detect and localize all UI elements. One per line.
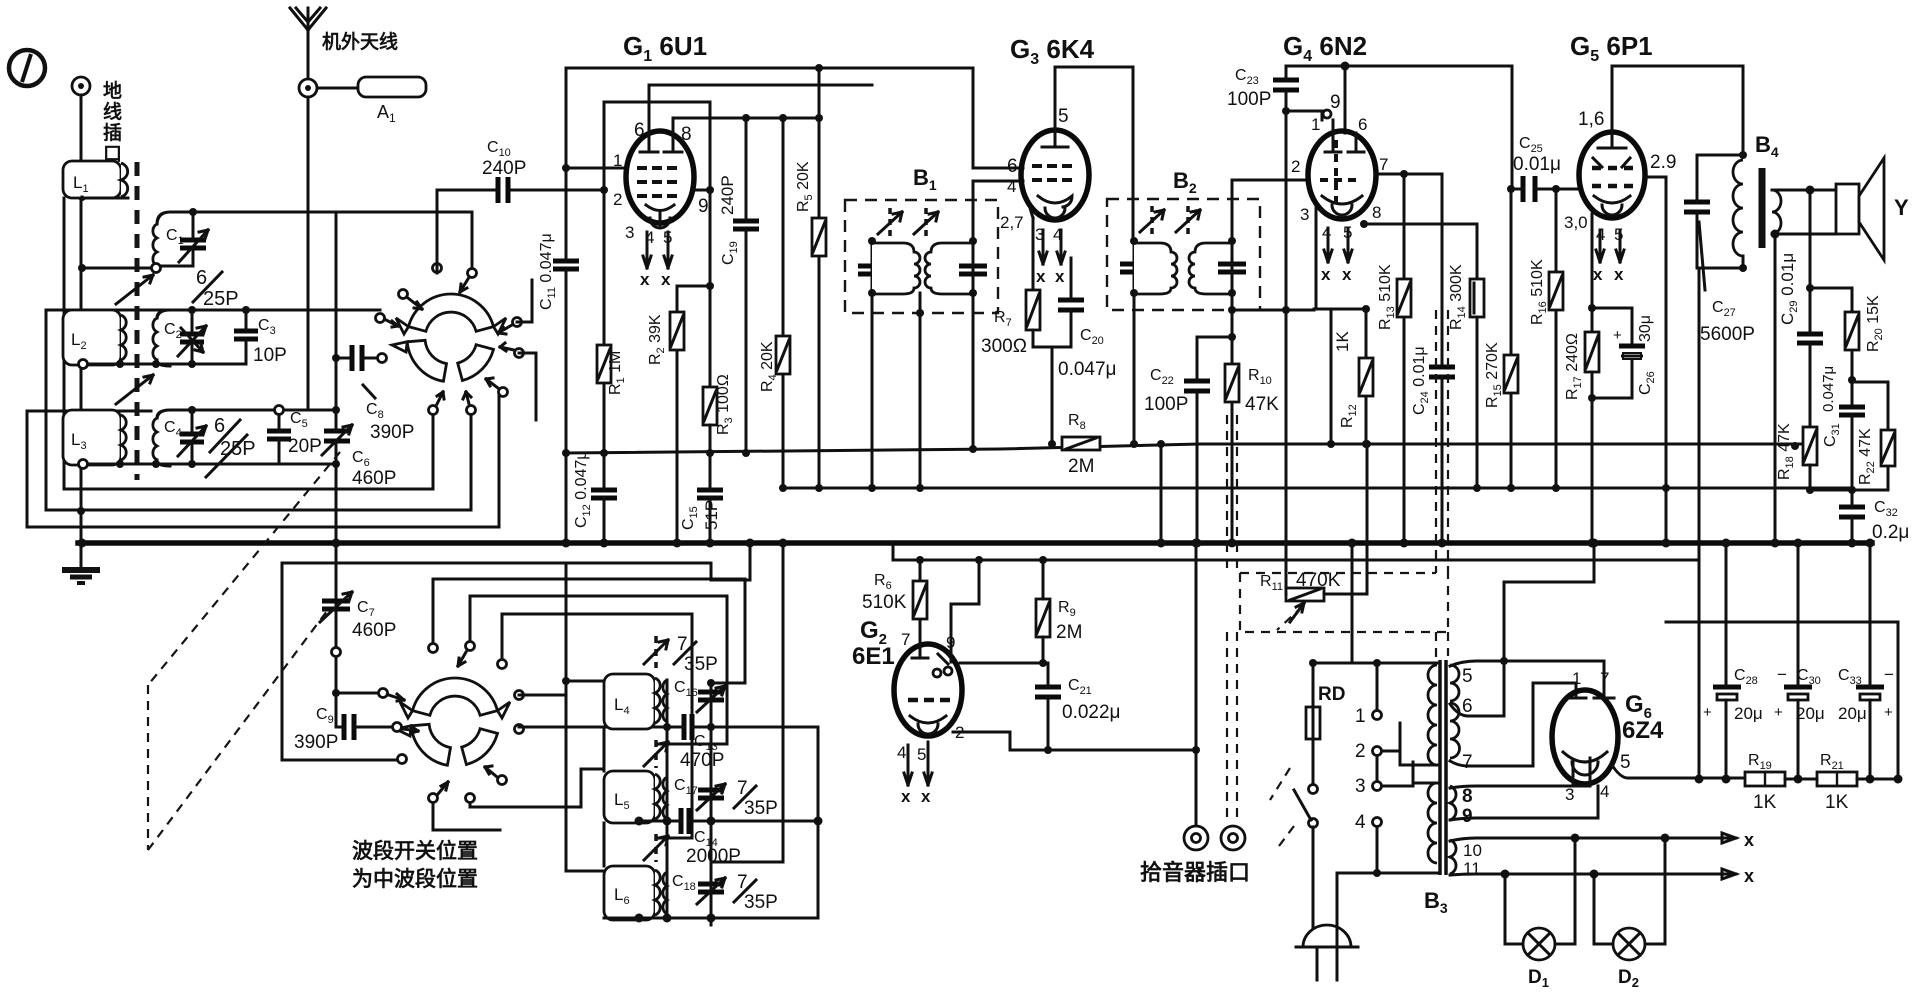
tube G6 filament — [1563, 752, 1607, 762]
capacitor C11 0.047u — [538, 68, 579, 543]
svg-text:机外天线: 机外天线 — [322, 30, 398, 53]
wire tap7 to plate1 — [1450, 683, 1576, 766]
wire G6 cathode out pin5 — [1612, 765, 1745, 778]
svg-text:x: x — [661, 270, 671, 289]
wire pin9 loop over tube y102 — [604, 102, 710, 190]
capacitor C30 20u — [1774, 543, 1825, 779]
wire G2 grid to R9/C21 — [960, 599, 1043, 663]
svg-text:R11: R11 — [1260, 573, 1283, 593]
resistor R16 510K — [1529, 189, 1563, 488]
tube G4 cathode — [1322, 196, 1362, 204]
antenna mast — [290, 8, 326, 97]
wire L-block left stubs — [566, 563, 604, 871]
svg-text:C8: C8 — [366, 401, 384, 421]
tube G6 plates — [1566, 697, 1614, 700]
svg-text:4: 4 — [1007, 177, 1016, 196]
transformer B2 box — [1107, 199, 1260, 310]
svg-text:R6: R6 — [874, 572, 892, 592]
resistor R3 100ohm — [703, 374, 735, 435]
svg-text:1: 1 — [613, 151, 622, 170]
svg-text:4: 4 — [1600, 782, 1609, 801]
svg-text:3: 3 — [1300, 205, 1309, 224]
svg-text:C25: C25 — [1519, 135, 1543, 155]
capacitor C2 trimmer — [180, 334, 204, 342]
wire antenna down to C6 — [308, 97, 336, 410]
tube G3 grids — [1032, 166, 1072, 180]
svg-text:C16: C16 — [674, 679, 698, 699]
wire G5 screen stub down — [1645, 177, 1666, 543]
capacitor C4 trimmer — [180, 434, 204, 442]
svg-text:R8: R8 — [1068, 412, 1086, 432]
wire speaker top — [1790, 189, 1836, 192]
svg-text:G1 6U1: G1 6U1 — [623, 31, 707, 65]
svg-text:C22: C22 — [1150, 367, 1174, 387]
svg-text:5600P: 5600P — [1700, 324, 1755, 345]
resistor R14 300K — [1448, 264, 1484, 488]
svg-text:C3: C3 — [258, 317, 276, 337]
svg-text:C15: C15 — [680, 506, 700, 530]
svg-text:D2: D2 — [1618, 967, 1639, 990]
tube G1 envelope — [626, 131, 694, 223]
node dots L-block — [635, 817, 644, 826]
svg-text:R5 20K: R5 20K — [795, 161, 815, 212]
node circled-1 mark — [9, 50, 45, 86]
tube G5 cathode — [1594, 196, 1630, 203]
wire screen line end to C32 — [1852, 488, 1855, 490]
dashed gang link to C6/C7 — [148, 452, 340, 850]
wire B2 left bottom down — [1133, 293, 1136, 444]
svg-text:300Ω: 300Ω — [981, 336, 1027, 357]
svg-text:C31: C31 — [1822, 423, 1842, 447]
inductor L6 unit — [604, 866, 667, 920]
svg-text:C17: C17 — [674, 777, 698, 797]
trimmer arrow gang lower — [116, 375, 153, 404]
svg-text:x: x — [1321, 265, 1331, 284]
svg-text:x: x — [1342, 265, 1352, 284]
resistor R8 2M — [1062, 412, 1100, 477]
dashed shielded pair to jacks — [1227, 415, 1237, 822]
svg-text:8: 8 — [681, 124, 692, 145]
svg-text:C18: C18 — [672, 873, 696, 893]
svg-text:A1: A1 — [377, 102, 396, 125]
svg-text:−: − — [1777, 665, 1787, 684]
svg-text:B3: B3 — [1424, 888, 1448, 916]
svg-text:+: + — [1884, 704, 1893, 721]
svg-text:C4: C4 — [164, 419, 182, 439]
wire osc gang line C6 down to bus and C7 — [335, 212, 338, 727]
svg-text:1: 1 — [1355, 706, 1366, 727]
tube G3 plate — [1042, 67, 1068, 147]
svg-text:470P: 470P — [680, 750, 724, 771]
svg-text:6: 6 — [1358, 115, 1367, 134]
svg-text:0.01μ: 0.01μ — [1513, 154, 1561, 175]
wire S2 bottom contacts — [433, 769, 604, 830]
tube G1 plates — [640, 85, 872, 152]
coil C1 — [153, 224, 157, 266]
wire left nest y527 L3 wrap — [27, 390, 499, 527]
svg-text:R18 47K: R18 47K — [1776, 423, 1796, 480]
svg-text:C11 0.047μ: C11 0.047μ — [538, 233, 558, 310]
svg-text:8: 8 — [1462, 786, 1473, 807]
svg-text:R10: R10 — [1248, 367, 1272, 387]
trimmer above L5 — [644, 740, 668, 768]
svg-text:R2 39K: R2 39K — [647, 314, 667, 365]
wire L3 bottom line — [86, 463, 336, 466]
svg-text:B2: B2 — [1173, 168, 1197, 196]
wire C1 top line — [82, 197, 336, 224]
svg-text:5: 5 — [1058, 106, 1069, 127]
tube G3 filament arrows — [1039, 230, 1065, 264]
wire C1 bottom — [157, 265, 193, 268]
svg-text:35P: 35P — [744, 892, 778, 913]
svg-text:460P: 460P — [352, 620, 396, 641]
svg-text:拾音器插口: 拾音器插口 — [1140, 860, 1250, 885]
dashed box around R11 — [1240, 573, 1448, 632]
capacitor C7 460P variable — [320, 592, 396, 641]
dashed shielded pair upper right — [1436, 310, 1448, 660]
lamp D2 — [1594, 838, 1665, 990]
svg-text:D1: D1 — [1528, 967, 1549, 990]
wire speaker bottom — [1775, 233, 1836, 236]
capacitor B1 right — [959, 266, 987, 274]
switch S2 contacts — [332, 642, 524, 803]
capacitor C21 0.022u — [1035, 663, 1121, 750]
tube G6 envelope — [1552, 690, 1618, 784]
svg-text:R9: R9 — [1058, 599, 1076, 619]
svg-text:25P: 25P — [203, 288, 239, 310]
svg-text:240P: 240P — [718, 175, 737, 215]
svg-text:R14 300K: R14 300K — [1448, 264, 1468, 330]
svg-text:x: x — [921, 787, 931, 806]
svg-text:5: 5 — [1620, 752, 1631, 773]
tube G2 internals — [912, 640, 951, 664]
svg-text:8: 8 — [1372, 203, 1381, 222]
svg-text:2: 2 — [1291, 157, 1300, 176]
wire pin7 line y174 — [1375, 174, 1442, 367]
capacitor C32 0.2u — [1839, 490, 1909, 543]
capacitor C9 390P — [294, 706, 392, 753]
tube G1 grids — [637, 168, 677, 196]
wire jack line y750 — [1010, 543, 1196, 829]
capacitor C12 0.047u — [573, 450, 617, 543]
svg-text:7: 7 — [1462, 752, 1473, 773]
coil B2 primary — [1134, 243, 1177, 294]
capacitor C3 10P — [234, 306, 287, 366]
tube G1 filament arrows — [643, 232, 672, 268]
tube G5 envelope — [1579, 132, 1645, 218]
svg-text:20μ: 20μ — [1838, 704, 1867, 723]
tube G3 envelope — [1021, 130, 1089, 220]
wire jack down to ground — [80, 95, 83, 570]
wire B1 right top to G3 grid — [973, 181, 1023, 241]
svg-text:460P: 460P — [352, 468, 396, 489]
switch S1 rotor — [392, 294, 506, 381]
svg-text:B1: B1 — [913, 165, 937, 193]
wire B+ filter line — [1785, 778, 1898, 781]
wire B1 bottom tap — [919, 293, 922, 488]
wire G2 pin9 riser — [951, 560, 979, 640]
coil C1 tank — [78, 197, 336, 273]
svg-text:390P: 390P — [294, 732, 338, 753]
wire C23 vertical — [1285, 66, 1288, 310]
coil B1 primary — [872, 243, 920, 294]
wire primary taps — [1382, 723, 1413, 786]
svg-text:C21: C21 — [1068, 677, 1092, 697]
svg-text:C28: C28 — [1734, 667, 1758, 687]
wire C10 left leg to contact — [437, 190, 494, 273]
capacitor C17 trimmer — [674, 777, 778, 819]
resistor R15 270K — [1484, 189, 1518, 488]
wire left nest y511 L2 wrap — [46, 310, 471, 510]
svg-text:510K: 510K — [862, 592, 907, 613]
svg-text:100P: 100P — [1144, 394, 1188, 415]
svg-text:0.2μ: 0.2μ — [1872, 522, 1909, 543]
tube G2 envelope — [894, 644, 962, 736]
resistor R9 2M — [1036, 560, 1082, 663]
svg-text:R16 510K: R16 510K — [1529, 259, 1549, 325]
wire B2 bottom detector node — [1232, 293, 1314, 593]
wire cathode detector extension — [1314, 309, 1366, 444]
svg-text:6: 6 — [214, 415, 225, 437]
coil C4 tank — [153, 406, 336, 468]
svg-text:390P: 390P — [370, 422, 414, 443]
svg-text:7: 7 — [1379, 155, 1388, 174]
wire G5 plate rail to B4 — [1612, 66, 1743, 155]
svg-text:1: 1 — [1311, 115, 1320, 134]
capacitor C24 0.01u — [1411, 346, 1455, 543]
trimmer above L4 — [644, 634, 718, 675]
svg-text:51P: 51P — [702, 500, 721, 530]
wire pin9 stub — [1286, 111, 1322, 120]
wire G5 grid line — [1556, 188, 1582, 191]
svg-text:6Z4: 6Z4 — [1622, 717, 1664, 744]
resistor R20 15K — [1845, 295, 1885, 352]
svg-text:x: x — [1036, 267, 1046, 286]
svg-text:C19: C19 — [720, 241, 740, 265]
wire L1 bottom node — [82, 197, 128, 200]
tube G3 cathode — [1038, 196, 1072, 207]
wire pin8 line y224 — [1364, 224, 1477, 279]
svg-text:C6: C6 — [352, 449, 370, 469]
svg-text:4: 4 — [1355, 812, 1366, 833]
svg-text:x: x — [1744, 830, 1754, 850]
wire C14 line extension — [711, 820, 818, 823]
tube G4 envelope — [1308, 131, 1376, 219]
svg-text:+: + — [1613, 327, 1622, 344]
svg-text:1K: 1K — [1333, 331, 1352, 352]
svg-text:G5 6P1: G5 6P1 — [1570, 31, 1653, 65]
wire left nest y490 L1 wrap — [64, 198, 433, 489]
wire pin8 top line y118 — [673, 117, 819, 120]
svg-text:0.047μ: 0.047μ — [1058, 359, 1117, 380]
svg-text:C32: C32 — [1874, 499, 1898, 519]
capacitor C22 100P — [1144, 337, 1232, 543]
wire right contacts to osc — [517, 280, 536, 420]
svg-text:20μ: 20μ — [1796, 704, 1825, 723]
svg-text:9: 9 — [698, 196, 709, 217]
svg-text:R12: R12 — [1339, 404, 1359, 428]
svg-text:C5: C5 — [290, 410, 308, 430]
wire S2 upper contacts nest wraps — [433, 579, 745, 683]
svg-text:插: 插 — [103, 122, 122, 144]
wire 8-9 loop to pins 3,4 — [1450, 758, 1598, 820]
resistor R5 20K — [795, 68, 826, 488]
svg-text:100P: 100P — [1227, 89, 1271, 110]
capacitor C33 20u — [1838, 543, 1894, 779]
pickup jacks — [1184, 826, 1245, 850]
wire B2 right top to 6N2 grid — [1232, 180, 1309, 241]
capacitor C28 20u — [1703, 543, 1763, 779]
tube G5 grids — [1592, 168, 1633, 186]
wire switch to plug left — [1312, 827, 1315, 947]
coil B1 secondary — [925, 243, 973, 294]
capacitor C13 470P — [667, 714, 724, 771]
capacitor C20 0.047u — [1058, 258, 1117, 380]
svg-text:2000P: 2000P — [686, 846, 741, 867]
wire lower-left loop — [282, 563, 398, 760]
speaker Y — [1836, 158, 1909, 260]
svg-text:20μ: 20μ — [1734, 704, 1763, 723]
tube G1 cathode — [646, 205, 674, 226]
wire G3 plate rail to B2 — [1055, 67, 1133, 241]
svg-text:线: 线 — [103, 100, 122, 123]
svg-text:3: 3 — [625, 223, 634, 242]
wiper R11 — [1290, 603, 1304, 622]
svg-text:6: 6 — [1007, 156, 1018, 177]
svg-text:R21: R21 — [1820, 752, 1844, 772]
transformer B3 primary contacts — [1376, 663, 1379, 873]
svg-text:R17 240Ω: R17 240Ω — [1564, 333, 1584, 400]
tube G4 filament arrows — [1324, 228, 1352, 262]
svg-text:R3 100Ω: R3 100Ω — [715, 374, 735, 435]
svg-text:0.022μ: 0.022μ — [1062, 702, 1121, 723]
svg-text:R7: R7 — [994, 309, 1012, 329]
dashed gang link vertical — [135, 162, 140, 480]
transformer B3 secondary 8-9 — [1450, 786, 1456, 820]
wire contact branch — [336, 692, 378, 695]
wire B4 bottom feed down — [1697, 256, 1743, 779]
svg-text:7: 7 — [901, 630, 910, 649]
resistor R21 1K — [1817, 752, 1857, 813]
wire down from R8 node — [1160, 444, 1163, 543]
wire top feed from bus — [1313, 543, 1437, 663]
capacitor C18 trimmer — [672, 872, 778, 913]
resistor R7 300ohm — [981, 290, 1071, 444]
wire 6N2 plate rail — [1286, 66, 1512, 189]
svg-text:x: x — [1614, 265, 1624, 284]
transformer B3 secondary 5-6 — [1450, 665, 1459, 701]
svg-text:RD: RD — [1318, 684, 1345, 705]
svg-text:C10: C10 — [487, 139, 511, 159]
lamp D1 — [1505, 838, 1575, 990]
svg-text:地: 地 — [103, 79, 122, 102]
resistor R2 39K — [647, 286, 710, 543]
capacitor C10 240P — [437, 139, 604, 203]
svg-text:C1: C1 — [166, 227, 184, 247]
svg-text:C12 0.047μ: C12 0.047μ — [573, 450, 593, 528]
svg-text:C33: C33 — [1838, 667, 1862, 687]
svg-text:R19: R19 — [1748, 752, 1772, 772]
resistor R10 47K — [1225, 293, 1279, 543]
capacitor C6 variable 460P — [322, 410, 396, 489]
wire tap6 stub — [1450, 704, 1504, 716]
wire right low line y622 — [1666, 622, 1898, 779]
wire pin3 cathode to detector line — [1314, 208, 1316, 309]
wire B1 right bottom down — [972, 293, 975, 449]
svg-text:25P: 25P — [220, 438, 256, 460]
component A1 — [317, 77, 426, 125]
resistor R1 1M — [597, 190, 627, 453]
svg-text:为中波段位置: 为中波段位置 — [352, 867, 478, 891]
tube G4 grids — [1320, 140, 1357, 210]
wire R11 terminals — [1286, 444, 1367, 594]
wire L2 bottom line — [86, 363, 246, 366]
capacitor C8 — [332, 345, 387, 398]
capacitor C27 5600P — [1684, 155, 1755, 345]
wire R20 branch — [1810, 288, 1852, 407]
svg-text:7: 7 — [1600, 669, 1609, 688]
capacitor C19 240P — [718, 118, 759, 453]
trimmer arrows B1 — [890, 208, 926, 238]
core B4 — [1759, 168, 1766, 248]
svg-text:3: 3 — [1565, 785, 1574, 804]
svg-text:240P: 240P — [482, 158, 526, 179]
svg-text:C24 0.01μ: C24 0.01μ — [1411, 346, 1431, 415]
svg-text:x: x — [1593, 265, 1603, 284]
svg-text:x: x — [640, 270, 650, 289]
svg-text:35P: 35P — [684, 654, 718, 675]
svg-text:x: x — [901, 787, 911, 806]
inductor L2 — [63, 310, 126, 365]
svg-text:2,7: 2,7 — [1000, 213, 1024, 232]
wire osc grid line to contact — [336, 212, 472, 268]
svg-text:+: + — [1703, 704, 1712, 721]
switch S2 rotor — [396, 678, 510, 765]
wire tap5 to plate2 line — [1450, 661, 1604, 697]
svg-text:x: x — [1744, 866, 1754, 886]
svg-text:9: 9 — [1462, 806, 1473, 827]
wire G5 cathode down — [1591, 214, 1594, 332]
ground symbol — [62, 570, 100, 583]
svg-text:x: x — [1055, 267, 1065, 286]
inductor L5 unit — [604, 771, 667, 823]
resistor R11 470K potentiometer — [1260, 570, 1341, 601]
svg-text:47K: 47K — [1245, 394, 1279, 415]
capacitor B2 left — [1120, 264, 1148, 272]
svg-text:5: 5 — [917, 745, 926, 764]
switch S1 contacts — [376, 264, 524, 415]
wire lower nest y563 — [282, 543, 750, 580]
capacitor B2 right — [1218, 264, 1246, 272]
wire B+ line y560 — [893, 543, 1699, 560]
wire heater winding 10-11 lines — [1450, 838, 1712, 875]
svg-text:G4 6N2: G4 6N2 — [1283, 31, 1367, 65]
ground bus — [78, 540, 1872, 546]
svg-text:3: 3 — [1355, 776, 1366, 797]
transformer B1 box — [845, 200, 998, 313]
inductor L3 — [63, 410, 126, 465]
svg-text:R15 270K: R15 270K — [1484, 342, 1504, 408]
node junction dots left column — [78, 193, 86, 201]
wire B1 left bottom down — [871, 293, 874, 488]
switch S1 contact arrows — [386, 279, 514, 351]
svg-text:20P: 20P — [288, 436, 322, 457]
svg-text:+: + — [1774, 704, 1783, 721]
capacitor C14 2000P — [639, 808, 741, 867]
core B3 — [1440, 660, 1446, 875]
trimmer arrows B2 — [1152, 206, 1188, 236]
resistor R17 240ohm — [1564, 332, 1599, 543]
